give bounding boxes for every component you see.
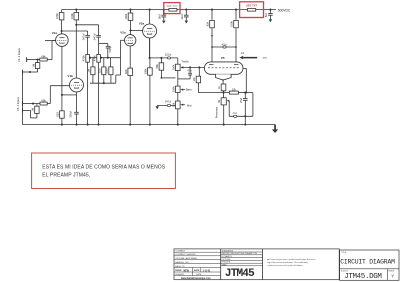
potentiometer Presence 5k bbox=[221, 98, 226, 105]
title table row line bbox=[174, 255, 221, 257]
wire bbox=[244, 93, 246, 99]
potentiometer Bass 250k bbox=[176, 86, 181, 92]
wire bbox=[183, 89, 185, 91]
wire bbox=[252, 93, 254, 117]
wire to V1a grid bbox=[51, 41, 53, 60]
svg-text:PHILLIPS: PHILLIPS bbox=[222, 262, 231, 264]
wire bbox=[212, 46, 236, 48]
node bbox=[235, 46, 237, 48]
svg-text:100k: 100k bbox=[144, 68, 148, 74]
title table row line bbox=[174, 275, 221, 277]
node V1b plate bbox=[75, 24, 77, 26]
wire bbox=[235, 10, 237, 20]
svg-text:25uf: 25uf bbox=[105, 68, 109, 73]
svg-text:100k: 100k bbox=[230, 21, 234, 27]
svg-text:STAGE: STAGE bbox=[388, 269, 395, 272]
wire bbox=[183, 104, 185, 106]
resistor R14 1M bbox=[196, 76, 200, 83]
wire bbox=[61, 10, 63, 13]
svg-text:Ch. 1 Inputs: Ch. 1 Inputs bbox=[16, 96, 20, 111]
tube V5 lower envelope bbox=[216, 74, 232, 80]
node bbox=[222, 79, 224, 81]
treble wiper arrow bbox=[180, 66, 183, 68]
svg-text:.47uf: .47uf bbox=[187, 70, 193, 73]
svg-text:ESTA ES MI IDEA DE COMO SERIA: ESTA ES MI IDEA DE COMO SERIA MAS O MENO… bbox=[42, 165, 165, 171]
wire bbox=[185, 10, 187, 15]
svg-text:Y: Y bbox=[391, 274, 394, 279]
svg-text:Presence: Presence bbox=[214, 106, 218, 118]
capacitor C9 47pf disc bbox=[223, 46, 226, 48]
svg-text:DATE: DATE bbox=[196, 273, 202, 276]
wire bbox=[92, 75, 94, 84]
svg-text:ORIGINAL (AMP NAME): ORIGINAL (AMP NAME) bbox=[175, 257, 197, 260]
svg-text:EL PREAMP JTM45,: EL PREAMP JTM45, bbox=[42, 173, 90, 179]
title table row line bbox=[221, 257, 263, 259]
wire V5 plate right bbox=[235, 28, 237, 62]
title table row line bbox=[221, 262, 263, 264]
wire V1b plate bbox=[75, 20, 77, 78]
wire V1a grid bbox=[45, 40, 56, 42]
svg-text:8uf: 8uf bbox=[264, 13, 268, 17]
wire bbox=[103, 75, 105, 84]
wire bbox=[189, 67, 191, 73]
node bbox=[149, 57, 151, 59]
wire bbox=[36, 113, 38, 118]
wire bbox=[198, 67, 200, 76]
title table row line bbox=[174, 267, 221, 269]
wire bbox=[47, 103, 50, 105]
wire bbox=[87, 37, 89, 54]
svg-text:25k: 25k bbox=[171, 102, 175, 107]
input jack J3 bbox=[22, 101, 24, 106]
svg-text:.047uf: .047uf bbox=[81, 33, 85, 40]
svg-text:100k: 100k bbox=[70, 13, 74, 19]
wire V2a grid drop bbox=[120, 40, 122, 75]
ground bbox=[269, 19, 272, 22]
wire bbox=[185, 17, 187, 21]
wire V1b cathode bbox=[76, 92, 78, 95]
wire lower bus bbox=[90, 82, 116, 84]
wire bbox=[98, 37, 100, 54]
wire bbox=[157, 104, 175, 106]
svg-text:56k: 56k bbox=[155, 64, 159, 69]
wire V3a cathode bbox=[149, 38, 151, 58]
input jack J4 bbox=[22, 108, 24, 113]
wire bbox=[23, 103, 34, 105]
capacitor C7 .47uf bbox=[188, 72, 192, 74]
node bbox=[211, 35, 213, 37]
node bbox=[89, 57, 91, 59]
svg-text:.1uf: .1uf bbox=[240, 52, 244, 55]
ground junction bbox=[129, 124, 131, 126]
svg-text:500VDC: 500VDC bbox=[278, 8, 291, 12]
svg-text:NATURE: VACUUM-TUBE PREAMP STG: NATURE: VACUUM-TUBE PREAMP STG bbox=[222, 252, 258, 255]
capacitor C5 25uf bbox=[109, 67, 113, 75]
rail junction bbox=[185, 9, 187, 11]
svg-text:500pf: 500pf bbox=[108, 46, 112, 53]
node bbox=[32, 103, 34, 105]
wire bbox=[23, 109, 31, 111]
wire bbox=[222, 80, 224, 84]
node bbox=[100, 57, 102, 59]
main ground arrow bbox=[274, 125, 276, 130]
title block divider bbox=[262, 249, 264, 280]
resistor R4 82k bbox=[210, 20, 215, 27]
svg-text:V1a: V1a bbox=[52, 31, 58, 35]
title table row line bbox=[221, 251, 263, 253]
wire bbox=[37, 69, 39, 72]
wire bbox=[107, 48, 109, 58]
triode V2a bbox=[125, 35, 136, 46]
wire left ground drop bbox=[22, 72, 24, 125]
rail junction bbox=[211, 9, 213, 11]
presence wiper arrow bbox=[227, 100, 230, 102]
triode V1a bbox=[56, 34, 69, 47]
svg-text:V3a: V3a bbox=[139, 22, 145, 26]
title table row line bbox=[174, 263, 221, 265]
node cathode join bbox=[61, 94, 63, 96]
wire cathode rail bbox=[198, 92, 229, 94]
resistor R15 1k bbox=[221, 84, 226, 91]
rail junction bbox=[163, 9, 165, 11]
node bbox=[244, 115, 246, 117]
wire bbox=[211, 10, 213, 20]
wire bbox=[116, 74, 121, 76]
node bbox=[129, 29, 131, 31]
wire pot chain bbox=[177, 93, 179, 102]
wire V2a grid bbox=[121, 39, 125, 41]
svg-text:COMPANY CHANGED: COMPANY CHANGED bbox=[175, 253, 196, 256]
svg-text:COMPANY: COMPANY bbox=[175, 250, 186, 253]
wire V1b grid bbox=[50, 85, 69, 87]
resistor R13 56k bbox=[159, 63, 164, 70]
wire bbox=[223, 93, 225, 98]
wire V1a plate bbox=[61, 20, 63, 34]
svg-text:820: 820 bbox=[56, 112, 60, 117]
wire pot chain bbox=[177, 71, 179, 87]
ground junction bbox=[223, 124, 225, 126]
red note box 1 bbox=[164, 3, 180, 14]
capacitor C1 330uf bbox=[74, 111, 79, 113]
wire bbox=[177, 109, 179, 125]
wire V1b plate to C3 bbox=[76, 24, 98, 26]
wire bbox=[33, 103, 40, 105]
wire bbox=[178, 78, 190, 80]
ground bbox=[156, 106, 159, 109]
rail junction bbox=[75, 9, 77, 11]
svg-text:25uf: 25uf bbox=[239, 98, 243, 103]
tube V5 envelope bbox=[204, 62, 243, 74]
wire bbox=[92, 58, 94, 67]
capacitor C8 .047uf disc bbox=[167, 104, 170, 106]
svg-text:Ch. 2 Inputs: Ch. 2 Inputs bbox=[17, 47, 21, 62]
wire bbox=[98, 25, 100, 35]
wire bbox=[110, 58, 112, 67]
wire bbox=[103, 58, 105, 67]
svg-text:Mid: Mid bbox=[187, 103, 192, 107]
red annotation box bbox=[32, 153, 176, 189]
wire bbox=[244, 100, 246, 124]
svg-text:.047uf: .047uf bbox=[164, 101, 171, 104]
svg-text:SEE TXT: SEE TXT bbox=[246, 3, 258, 7]
svg-text:470k: 470k bbox=[82, 55, 86, 61]
wire bbox=[130, 10, 132, 13]
svg-text:820: 820 bbox=[98, 68, 102, 73]
wire bbox=[229, 115, 253, 117]
wire bbox=[269, 10, 271, 14]
node bbox=[189, 66, 191, 68]
rail junction bbox=[235, 9, 237, 11]
potentiometer Mid 25k bbox=[176, 101, 181, 109]
ground junction bbox=[61, 124, 63, 126]
svg-text:SEE TXT: SEE TXT bbox=[167, 4, 178, 8]
capacitor C-f1 16uf bbox=[162, 14, 167, 16]
resistor R5 100k bbox=[234, 20, 239, 27]
rail junction bbox=[129, 9, 131, 11]
svg-text:100k: 100k bbox=[124, 13, 128, 19]
title table row line bbox=[221, 259, 263, 261]
wire to V3a grid bbox=[131, 29, 143, 31]
wire V1a cathode down bbox=[61, 46, 63, 111]
svg-text:MADE ON: MADE ON bbox=[175, 265, 185, 268]
node bbox=[161, 77, 163, 79]
svg-text:.022uf: .022uf bbox=[164, 53, 171, 56]
wire bbox=[89, 57, 97, 59]
capacitor C-f3 8uf bbox=[268, 13, 273, 15]
svg-text:out: out bbox=[263, 56, 267, 60]
wire bbox=[110, 75, 112, 84]
resistor R1 100k bbox=[59, 13, 64, 20]
title table row line bbox=[221, 265, 263, 267]
resistor R7 470k bbox=[86, 54, 90, 62]
title table row line bbox=[221, 254, 263, 256]
ground bus wire bbox=[23, 124, 276, 126]
title block divider bbox=[220, 249, 222, 280]
node bbox=[103, 82, 105, 84]
resistor R3 100k bbox=[128, 13, 133, 20]
svg-text:Bass: Bass bbox=[186, 88, 193, 92]
wire bbox=[27, 59, 38, 61]
wire bbox=[197, 83, 199, 93]
triode V1b bbox=[70, 78, 84, 92]
wire bbox=[30, 110, 32, 118]
svg-text:250k: 250k bbox=[171, 86, 175, 92]
resistor R9 1M bbox=[91, 67, 95, 75]
wire bbox=[223, 91, 225, 93]
wire bbox=[23, 71, 38, 73]
wire V3a plate bbox=[149, 10, 151, 24]
wire bbox=[76, 114, 78, 125]
wire bbox=[107, 44, 109, 47]
svg-text:STANDARDS: STANDARDS bbox=[222, 249, 234, 252]
potentiometer Treble 250k bbox=[176, 64, 181, 70]
ground junction bbox=[244, 124, 246, 126]
wire mixer bus bbox=[100, 57, 120, 59]
resistor R-note2 (on rail) bbox=[248, 9, 256, 12]
node bbox=[222, 92, 224, 94]
title divider bbox=[340, 268, 399, 270]
capacitor C11 .1uf disc bbox=[234, 115, 237, 117]
wire R8 leg to ground bbox=[98, 62, 100, 124]
wire bbox=[31, 117, 37, 119]
svg-text:CIRCUIT DIAGRAM: CIRCUIT DIAGRAM bbox=[340, 258, 395, 265]
svg-text:www.handwired-amps.com: www.handwired-amps.com bbox=[181, 278, 211, 280]
input jack J1 bbox=[26, 57, 28, 62]
svg-text:DRWN: DRWN bbox=[175, 270, 182, 272]
resistor R2 100k bbox=[74, 13, 79, 20]
capacitor C-f2 32uf bbox=[184, 14, 189, 16]
svg-text:Treble: Treble bbox=[181, 59, 189, 63]
triode V3a bbox=[143, 24, 157, 38]
svg-text:DRAWER: DRAWER bbox=[175, 273, 184, 276]
svg-text:confirm an error in this joint: confirm an error in this joint calculati… bbox=[267, 264, 303, 267]
input jack J2 bbox=[22, 70, 24, 75]
svg-text:820: 820 bbox=[124, 69, 128, 74]
node bbox=[107, 57, 109, 59]
wire bbox=[161, 77, 175, 79]
wire bbox=[76, 95, 78, 112]
wire treble wiper to V5 grid bbox=[183, 66, 205, 68]
wire bbox=[189, 75, 191, 79]
wire bbox=[160, 70, 162, 78]
output arrow bbox=[239, 56, 243, 59]
rail junction bbox=[149, 9, 151, 11]
svg-text:JTM45.DGM: JTM45.DGM bbox=[344, 273, 382, 281]
ground junction bbox=[87, 124, 89, 126]
svg-text:330uf: 330uf bbox=[69, 111, 73, 118]
B+ supply rail wire bbox=[62, 9, 276, 11]
wire bbox=[223, 105, 225, 125]
wire bbox=[149, 75, 151, 124]
node bbox=[211, 46, 213, 48]
wire bbox=[243, 67, 246, 69]
red note box 2 bbox=[240, 2, 264, 18]
title table row line bbox=[174, 259, 221, 261]
wire tone feed bbox=[150, 57, 178, 59]
title table row line bbox=[174, 271, 221, 273]
wire bbox=[37, 60, 39, 63]
svg-text:JTM45: JTM45 bbox=[225, 268, 255, 280]
svg-text:DYNAMICS:: DYNAMICS: bbox=[222, 255, 233, 258]
svg-text:250k: 250k bbox=[171, 64, 175, 70]
resistor R12 100k bbox=[148, 68, 153, 75]
svg-text:MAIN: MAIN bbox=[222, 263, 227, 266]
title block main frame bbox=[174, 249, 339, 280]
wire bbox=[36, 104, 38, 107]
ground junction bbox=[177, 124, 179, 126]
wire bbox=[47, 59, 52, 61]
wire to V1b grid bbox=[49, 86, 51, 104]
wire bbox=[163, 17, 165, 21]
node V1a plate bbox=[61, 30, 63, 32]
capacitor C4 500pf bbox=[106, 45, 110, 47]
ground junction bbox=[149, 124, 151, 126]
wire bbox=[115, 75, 117, 83]
svg-text:16uf: 16uf bbox=[158, 14, 162, 19]
svg-text:.1uf: .1uf bbox=[233, 112, 237, 115]
svg-text:TITLE: TITLE bbox=[341, 252, 347, 254]
wire bbox=[228, 101, 230, 117]
wire bbox=[75, 10, 77, 13]
wire bbox=[269, 15, 271, 19]
wire bbox=[238, 92, 253, 94]
svg-text:V2a: V2a bbox=[120, 31, 126, 35]
capacitor C3 .047uf bbox=[96, 34, 101, 36]
wire bbox=[149, 58, 151, 68]
wire R7 leg to ground bbox=[87, 62, 89, 124]
svg-text:82k: 82k bbox=[206, 21, 210, 26]
node bbox=[160, 57, 162, 59]
wire bbox=[129, 76, 131, 125]
wire cathode join bbox=[62, 94, 77, 96]
wire V1a plate to C2 bbox=[62, 30, 88, 32]
wire bbox=[38, 59, 40, 61]
svg-text:NEW: NEW bbox=[184, 270, 190, 272]
resistor R8 470k bbox=[97, 54, 101, 62]
svg-text:100k: 100k bbox=[55, 13, 59, 19]
svg-text:.047uf: .047uf bbox=[92, 33, 96, 40]
svg-text:DATE: DATE bbox=[194, 269, 200, 272]
resistor R18 1M bbox=[35, 63, 39, 69]
wire V5 plate left bbox=[211, 28, 213, 62]
svg-text:32uf: 32uf bbox=[180, 14, 184, 19]
wire V2a cathode bbox=[129, 46, 131, 68]
wire bbox=[52, 40, 56, 42]
drawing title block bbox=[340, 250, 399, 280]
resistor R20 1M bbox=[35, 106, 39, 113]
wire bbox=[156, 105, 158, 106]
ground junction bbox=[98, 124, 100, 126]
title table row line bbox=[174, 251, 221, 253]
wire bbox=[177, 58, 179, 64]
resistor R6 820 bbox=[60, 111, 65, 118]
node bbox=[246, 92, 248, 94]
svg-text:V5: V5 bbox=[221, 56, 225, 60]
resistor R-note1 (on rail) bbox=[169, 9, 177, 12]
wire bbox=[87, 31, 89, 35]
ground junction bbox=[75, 124, 77, 126]
node bbox=[198, 66, 200, 68]
wire bbox=[61, 118, 63, 124]
svg-text:OPTIONS: OPTIONS bbox=[222, 259, 231, 261]
svg-text:◆ I have not yet seen a make-c: ◆ I have not yet seen a make-check befor… bbox=[267, 258, 315, 261]
svg-text:top of the actual transformer.: top of the actual transformer. This coul… bbox=[267, 261, 308, 264]
svg-text:NAME/No. S/N: NAME/No. S/N bbox=[175, 261, 189, 264]
node bbox=[29, 71, 31, 73]
rail junction bbox=[269, 9, 271, 11]
wire bbox=[160, 58, 162, 63]
resistor R11 820 bbox=[128, 68, 133, 75]
node bbox=[37, 59, 39, 61]
node bbox=[244, 92, 246, 94]
mid wiper arrow bbox=[180, 104, 183, 106]
bass wiper arrow bbox=[180, 89, 183, 91]
ground bbox=[185, 21, 188, 24]
capacitor C10 25uf bbox=[243, 98, 248, 100]
stage divider bbox=[386, 269, 388, 281]
wire V2a plate bbox=[130, 20, 132, 34]
svg-text:1-11-01: 1-11-01 bbox=[203, 270, 212, 272]
wire V5 right cathode bbox=[245, 68, 247, 92]
capacitor C6 .022uf disc bbox=[167, 57, 170, 59]
wire bbox=[163, 10, 165, 15]
resistor R10 820 bbox=[102, 67, 106, 75]
ground bbox=[162, 21, 165, 24]
wire to C4 bbox=[99, 43, 108, 45]
capacitor C2 .047uf bbox=[85, 34, 90, 36]
svg-text:V1b: V1b bbox=[67, 74, 73, 78]
